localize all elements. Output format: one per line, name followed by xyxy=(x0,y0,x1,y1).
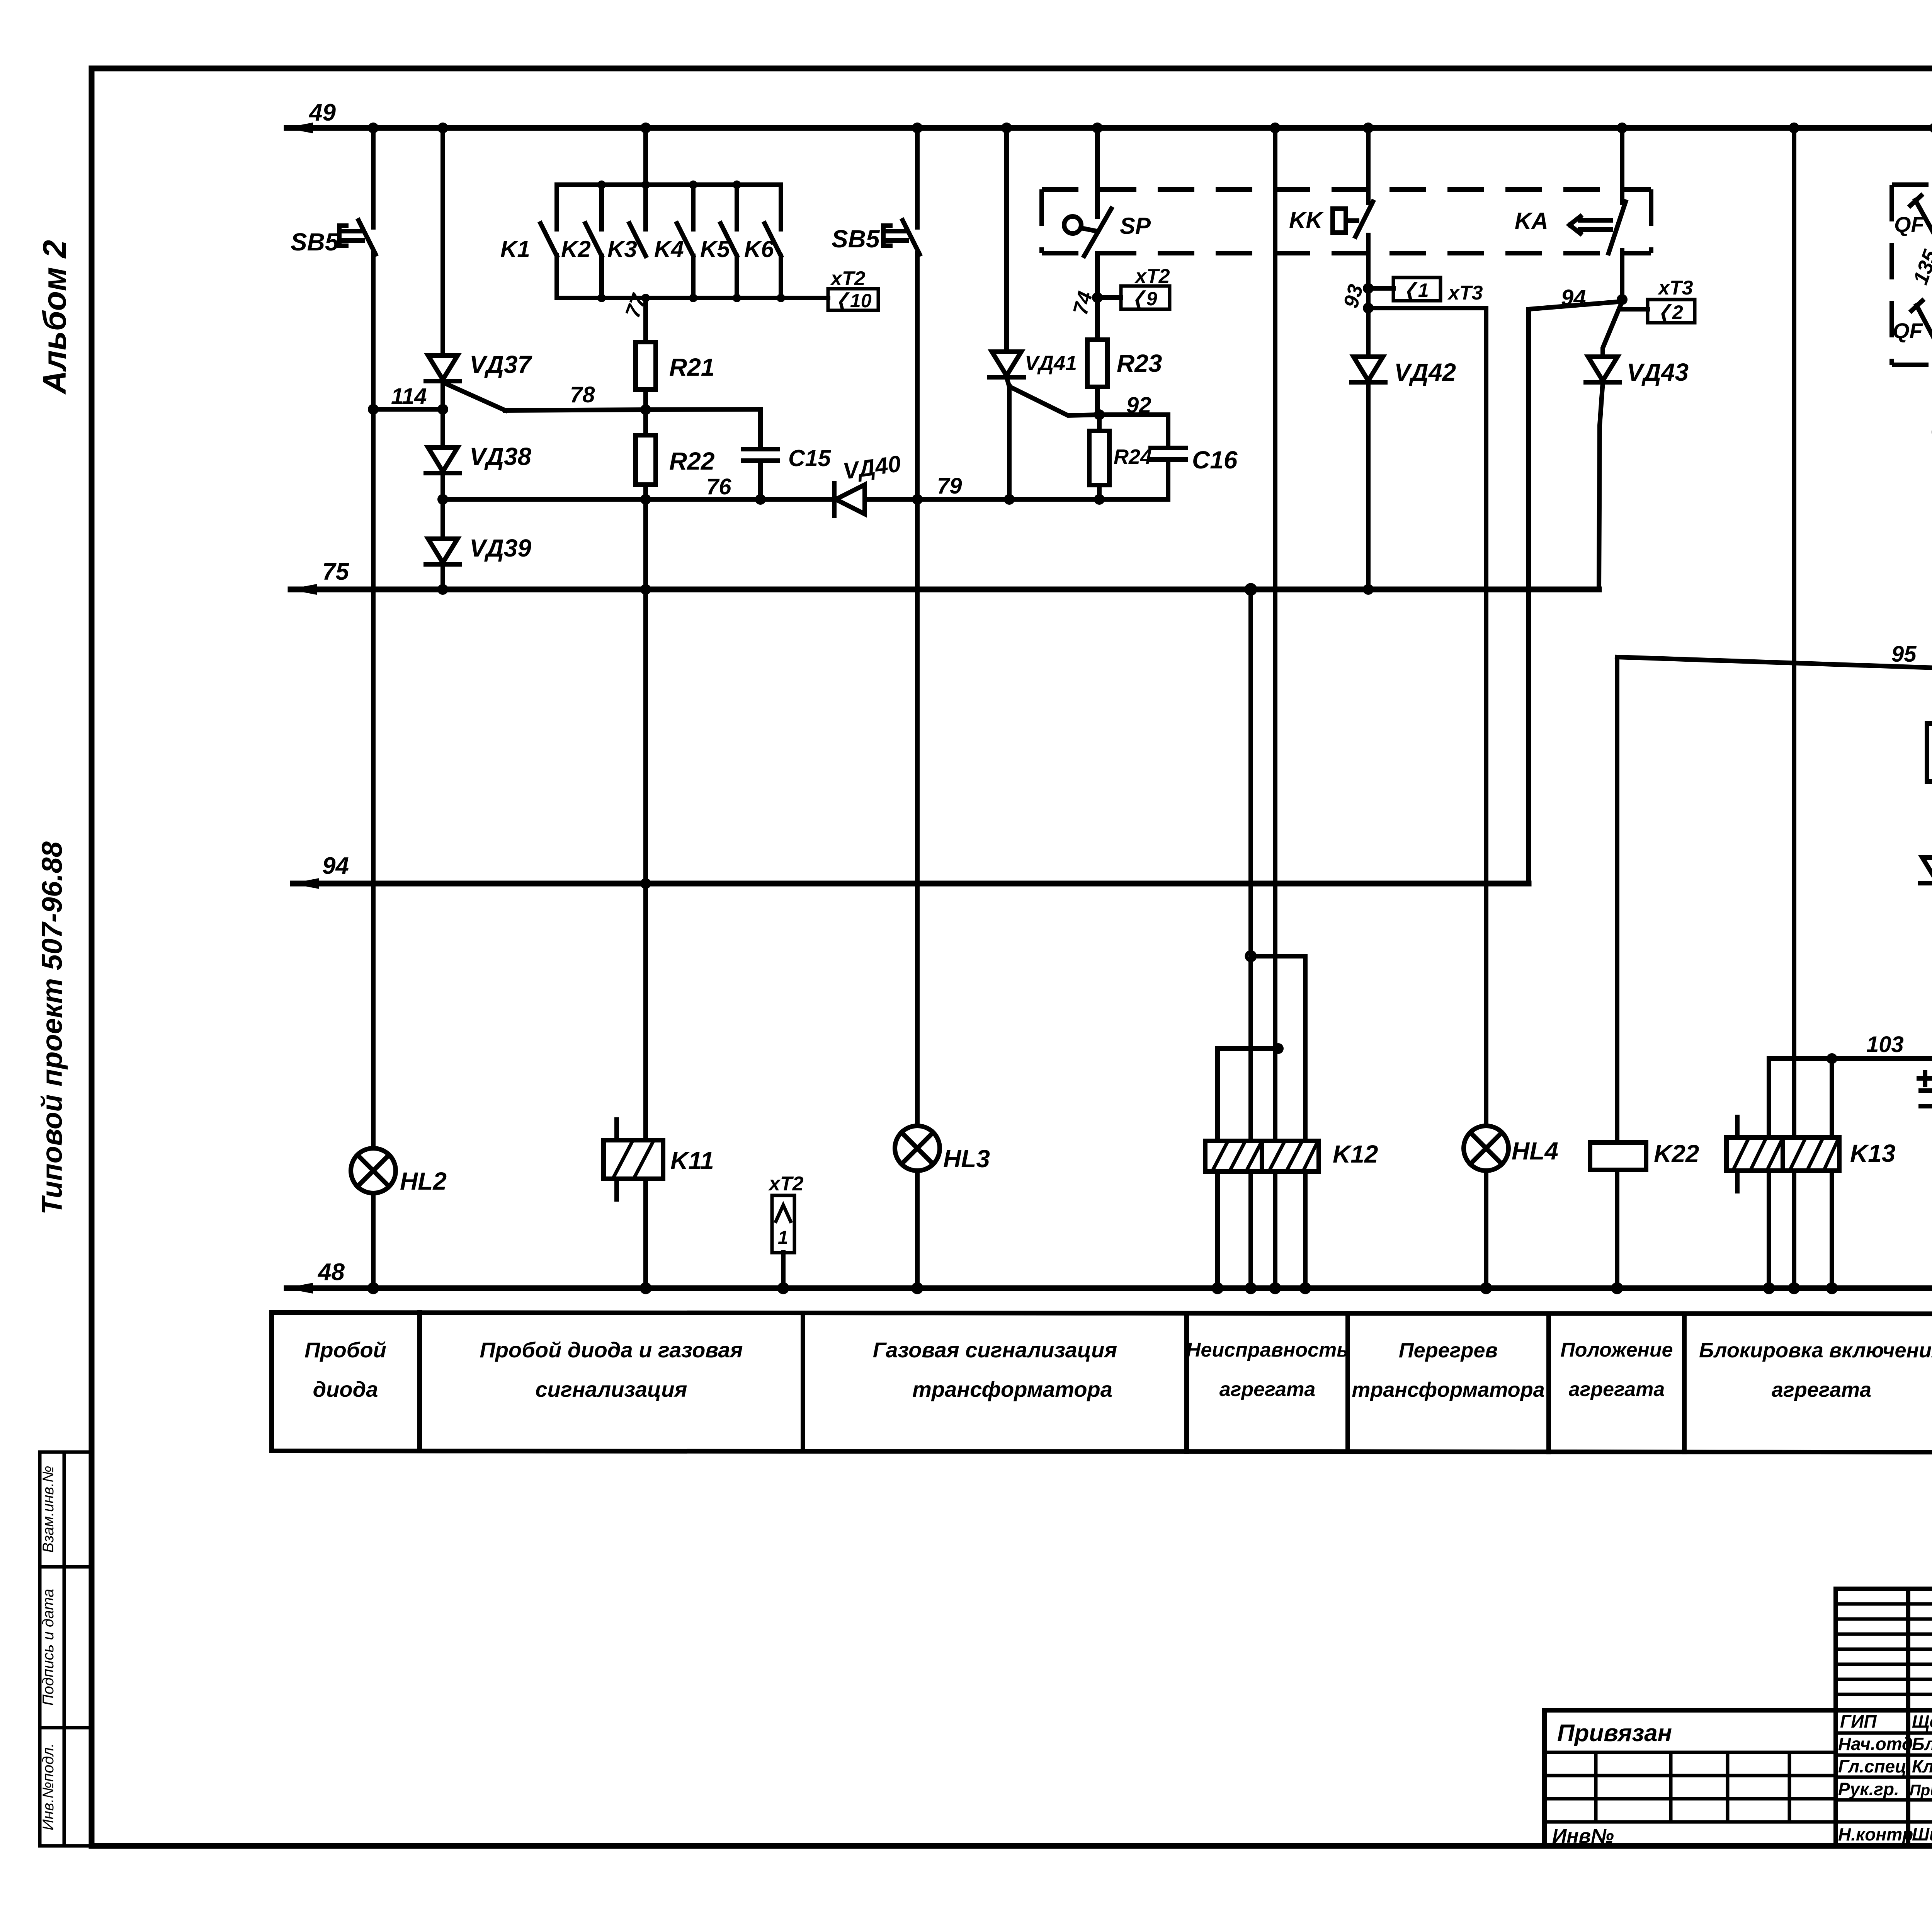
svg-text:❬1: ❬1 xyxy=(1402,279,1429,302)
wire node92 corner to C16 xyxy=(1099,415,1168,448)
wire HL3 to bus48 xyxy=(915,1171,920,1288)
wire R24 top xyxy=(1097,415,1102,431)
junction R24 x line76 xyxy=(1094,494,1105,505)
svg-text:C15: C15 xyxy=(788,445,832,471)
svg-text:48: 48 xyxy=(317,1259,345,1285)
svg-text:R24: R24 xyxy=(1114,445,1152,468)
wire VD41 diagonal to node 92 xyxy=(1007,377,1099,415)
svg-text:Привезенцева: Привезенцева xyxy=(1910,1782,1932,1799)
lamp HL2 xyxy=(351,1148,396,1193)
junction K2 bottom xyxy=(597,294,606,302)
wire 77 K bank to R21 xyxy=(643,298,648,342)
junction VD41 column x line76 xyxy=(1004,494,1015,505)
svg-text:ГИП: ГИП xyxy=(1840,1711,1877,1731)
wire column KK upper xyxy=(1366,128,1371,203)
svg-text:R23: R23 xyxy=(1117,349,1162,377)
junction K4 bottom xyxy=(689,294,697,302)
terminal circle XT2-1 at bus48 xyxy=(779,1284,787,1292)
wire HL2 to bus48 xyxy=(371,1193,376,1288)
resistor R22 xyxy=(636,435,656,485)
svg-text:76: 76 xyxy=(706,474,731,499)
junction bus49 x KK xyxy=(1363,123,1374,133)
wire K22 column xyxy=(1615,657,1619,1142)
table cell Газовая сигнализация трансформатора xyxy=(873,1338,1117,1401)
svg-text:Положение: Положение xyxy=(1560,1339,1673,1361)
wire SB5-2 lower through node79 to HL3 xyxy=(915,253,920,1126)
junction K2 top xyxy=(597,180,606,189)
wire VD43 to bus75 right end xyxy=(1599,382,1603,589)
svg-text:SB5: SB5 xyxy=(832,225,880,253)
junction 78 x R21 column xyxy=(640,404,651,415)
svg-text:Типовой проект 507-96.88: Типовой проект 507-96.88 xyxy=(36,841,68,1215)
resistor R21 xyxy=(636,342,656,390)
wire column SB5-1 lower to HL2 xyxy=(371,253,376,1148)
svg-text:HL3: HL3 xyxy=(943,1145,990,1173)
wire column SP upper xyxy=(1095,128,1100,216)
table cell Положение агрегата xyxy=(1560,1339,1673,1401)
resistor R23 xyxy=(1087,340,1107,387)
svg-text:Клячин: Клячин xyxy=(1912,1756,1932,1776)
relay coil K13 (double) xyxy=(1726,1117,1839,1191)
wire HL4 to bus48 xyxy=(1484,1171,1488,1288)
junction K5 bottom xyxy=(733,294,741,302)
contact K6 xyxy=(765,223,781,298)
wire column from bus75 to K12 (3237) xyxy=(1248,589,1253,1288)
wire node93 to XT3-1 xyxy=(1368,286,1393,291)
svg-text:агрегата: агрегата xyxy=(1772,1378,1871,1401)
wire VD39 to bus 75 xyxy=(440,564,445,589)
junction bus75 x K11 column xyxy=(640,584,651,595)
svg-text:Шишло: Шишло xyxy=(1912,1824,1932,1844)
svg-text:❬2: ❬2 xyxy=(1656,301,1683,324)
junction K3 bottom xyxy=(641,294,650,302)
wire R22 bottom to line76 xyxy=(643,485,648,499)
contact KA blade xyxy=(1609,202,1626,253)
left attach box rows xyxy=(1544,1752,1836,1822)
svg-text:K1: K1 xyxy=(500,236,530,262)
svg-text:Неисправность: Неисправность xyxy=(1186,1339,1349,1361)
wire line 103 xyxy=(1769,1056,1932,1061)
junction bus49 x KA xyxy=(1617,123,1628,133)
wire column VD37 top xyxy=(440,128,445,356)
resistor R24 xyxy=(1089,431,1109,485)
wire column SB5-2 upper xyxy=(915,128,920,227)
contact KK thermal element xyxy=(1333,209,1357,233)
wire column VD41 xyxy=(1004,128,1009,352)
capacitor C15 xyxy=(743,449,778,461)
relay coil K11 xyxy=(604,1120,663,1199)
wire node94 branch to bus94 xyxy=(1529,301,1622,884)
svg-text:K5: K5 xyxy=(700,236,730,262)
svg-text:Рук.гр.: Рук.гр. xyxy=(1838,1779,1899,1799)
svg-text:K12: K12 xyxy=(1333,1140,1378,1168)
connector XT2 pin 9 box xyxy=(1121,286,1170,310)
wire node94 to XT3-2 xyxy=(1622,307,1648,312)
wire XT2-1 to bus48 xyxy=(781,1253,786,1288)
switch SP head circle xyxy=(1064,216,1081,233)
junction bus94 x K11 column xyxy=(640,878,651,889)
svg-text:Пробой: Пробой xyxy=(304,1338,386,1362)
wire corner 78 down to C15 xyxy=(758,409,763,449)
switch SB5 (second) actuator xyxy=(883,226,906,246)
svg-text:75: 75 xyxy=(322,558,349,585)
svg-text:KK: KK xyxy=(1289,207,1324,233)
wire VD42 to bus75 xyxy=(1366,382,1371,589)
wire KK to node 93 xyxy=(1366,235,1371,308)
connector XT3 pin 2 box xyxy=(1648,300,1695,324)
svg-text:R21: R21 xyxy=(669,353,714,381)
wire line 95 xyxy=(1617,657,1932,668)
switch SB5 (second) blade xyxy=(903,220,920,254)
bus 75 wire xyxy=(291,587,1599,592)
wire line 79 to node 92 branch xyxy=(917,497,1009,502)
diode VD44 xyxy=(1920,858,1932,883)
contact K3 blade xyxy=(629,223,646,256)
contact K5 xyxy=(721,185,737,298)
junction node 92 xyxy=(1094,409,1105,420)
table cell Неисправность агрегата xyxy=(1186,1339,1349,1401)
svg-text:1: 1 xyxy=(778,1227,788,1248)
svg-text:Гл.спец: Гл.спец xyxy=(1838,1756,1906,1776)
bus 49 arrow xyxy=(285,123,313,133)
svg-text:49: 49 xyxy=(308,99,336,126)
contact K1 xyxy=(541,223,557,256)
wire R23 to node 92 xyxy=(1095,387,1100,414)
junction node 79 xyxy=(912,494,923,505)
junction C15 x line76 xyxy=(755,494,766,505)
svg-text:Щетинский: Щетинский xyxy=(1912,1711,1932,1731)
junction bus75 x VD42 xyxy=(1363,584,1374,595)
svg-text:Инв№: Инв№ xyxy=(1552,1825,1614,1847)
diode VD37 xyxy=(426,356,460,381)
terminal circle K11 at bus48 xyxy=(641,1284,650,1292)
junction line76 x VD column xyxy=(437,494,448,505)
switch SB5 (left) actuator xyxy=(339,226,362,246)
wire VD37 to node114 junction xyxy=(440,381,445,448)
svg-text:K2: K2 xyxy=(561,236,591,262)
junction at 3308,2713 xyxy=(1273,1043,1284,1054)
junction node 94 (XT3-2) xyxy=(1617,294,1628,305)
capacitor C16 xyxy=(1151,448,1185,460)
junction bus49 x VD column xyxy=(437,123,448,133)
wire K12 right feed xyxy=(1303,956,1308,1288)
svg-text:HL2: HL2 xyxy=(400,1167,447,1195)
svg-text:❬10: ❬10 xyxy=(834,290,872,312)
svg-text:VД42: VД42 xyxy=(1394,358,1456,386)
junction circle bus75 x 3237 xyxy=(1246,585,1255,594)
svg-text:Блокировка включения: Блокировка включения xyxy=(1699,1339,1932,1362)
junction bus49 x K column xyxy=(640,123,651,133)
svg-text:K13: K13 xyxy=(1850,1139,1895,1167)
switch SP link xyxy=(1081,228,1097,231)
junction 114 x VD column xyxy=(437,404,448,415)
wire column from bus49 to K12 (3300) xyxy=(1273,128,1277,1288)
junction bus49 x SB5-1 xyxy=(368,123,379,133)
wire VD38 to line 76 xyxy=(440,473,445,539)
signature table rows xyxy=(1836,1733,1932,1822)
junction node 93 lower branch xyxy=(1363,303,1374,313)
junction circle at 3237,2474 xyxy=(1247,952,1255,960)
svg-text:R22: R22 xyxy=(669,447,714,475)
table cell Перегрев трансформатора xyxy=(1352,1339,1544,1401)
svg-text:QF: QF xyxy=(1893,318,1923,343)
svg-text:Альбом 2: Альбом 2 xyxy=(36,240,73,395)
wire node74 to XT2-9 xyxy=(1097,295,1121,300)
svg-text:K6: K6 xyxy=(744,236,774,262)
connector XT3 pin 1 box xyxy=(1393,278,1440,302)
svg-text:Пробой диода и газовая: Пробой диода и газовая xyxy=(480,1338,743,1362)
svg-text:78: 78 xyxy=(570,382,595,407)
function table grid xyxy=(272,1313,1932,1452)
connector XT2 pin 1 (vertical) xyxy=(772,1195,794,1253)
diode VD38 xyxy=(426,448,460,473)
junction K4 top xyxy=(689,180,697,189)
svg-text:хT2: хT2 xyxy=(830,267,866,290)
svg-text:хT3: хT3 xyxy=(1447,282,1483,304)
svg-text:114: 114 xyxy=(391,384,427,409)
table cell Пробой диода и газовая сигнализация xyxy=(480,1338,743,1401)
junction bus49 x SB5-2 xyxy=(912,123,923,133)
svg-text:VД38: VД38 xyxy=(469,443,532,470)
wire K12 jog lower xyxy=(1218,1046,1278,1051)
svg-text:❬9: ❬9 xyxy=(1130,288,1157,310)
junction K5 top xyxy=(733,180,741,189)
wire main column K3/R21 from bus49 xyxy=(643,128,648,229)
diode VD43 xyxy=(1586,357,1620,382)
table cell Блокировка включения агрегата xyxy=(1699,1339,1932,1401)
junction node 74 xyxy=(1092,292,1103,303)
bus 48 wire xyxy=(287,1285,1932,1291)
svg-text:хT2: хT2 xyxy=(768,1173,804,1195)
wire KK column to VD42 xyxy=(1366,308,1371,357)
junction XT3-3 xyxy=(1932,427,1932,438)
svg-text:Н.контр.: Н.контр. xyxy=(1838,1824,1918,1844)
svg-text:Привязан: Привязан xyxy=(1557,1720,1672,1747)
wire R24 bottom xyxy=(1097,485,1102,499)
lamp HL4 xyxy=(1464,1126,1509,1171)
svg-text:хT3: хT3 xyxy=(1657,277,1693,299)
svg-text:хT2: хT2 xyxy=(1134,265,1170,288)
wire 103 to K13 right xyxy=(1830,1059,1834,1137)
signature rows text xyxy=(1838,1711,1932,1844)
svg-text:трансформатора: трансформатора xyxy=(1352,1378,1544,1401)
svg-text:95: 95 xyxy=(1891,642,1917,667)
wire node93 branch to HL4 column xyxy=(1368,308,1486,1126)
svg-text:агрегата: агрегата xyxy=(1569,1378,1665,1401)
wire line 78 xyxy=(505,409,760,410)
junction bus75 x VD column xyxy=(437,584,448,595)
junction R22 x line76 xyxy=(640,494,651,505)
terminal circle HL2 at bus48 xyxy=(369,1284,378,1292)
breaker QF contact 2 xyxy=(1912,301,1932,348)
svg-text:Перегрев: Перегрев xyxy=(1399,1339,1498,1362)
diode VD39 xyxy=(426,539,460,564)
lamp HL3 xyxy=(895,1126,940,1171)
terminal circles K13 at bus48 xyxy=(1765,1284,1773,1292)
svg-text:Взам.инв.№: Взам.инв.№ xyxy=(40,1466,57,1553)
wire VD40 to node 79 xyxy=(865,497,917,502)
svg-text:VД41: VД41 xyxy=(1025,352,1077,375)
table cell Пробой диода xyxy=(304,1338,386,1401)
terminal circle K22 at bus48 xyxy=(1613,1284,1621,1292)
junction bus49 x 4643 xyxy=(1789,123,1799,133)
svg-text:HL4: HL4 xyxy=(1512,1137,1558,1165)
wire SP to node 74 xyxy=(1095,253,1100,340)
terminal circle HL4 at bus48 xyxy=(1482,1284,1490,1292)
svg-text:79: 79 xyxy=(937,473,962,499)
switch SB5 (left) blade xyxy=(359,220,376,254)
bus 94 wire xyxy=(293,881,1529,887)
junction bus49 x SP column xyxy=(1092,123,1103,133)
dashed box QF xyxy=(1892,185,1932,365)
svg-text:SP: SP xyxy=(1120,213,1151,239)
dashed box SP KK KA xyxy=(1042,189,1651,253)
svg-text:K11: K11 xyxy=(670,1147,714,1175)
revision grid rows xyxy=(1836,1604,1932,1694)
wire K11 to bus48 xyxy=(643,1179,648,1288)
wire column R22/K11 from bus94 xyxy=(643,499,648,1140)
svg-text:QF: QF xyxy=(1894,212,1925,237)
svg-text:Подпись и дата: Подпись и дата xyxy=(40,1589,57,1706)
junction bus49 x QF xyxy=(1929,123,1932,133)
junction bus49 x 3300 xyxy=(1270,123,1281,133)
junction node 93 (XT3-1) xyxy=(1363,283,1374,294)
svg-text:VД37: VД37 xyxy=(469,351,533,378)
diode VD40 (horizontal) xyxy=(834,483,865,516)
wires K13 to bus48 xyxy=(1767,1171,1771,1288)
wire K22 to bus48 xyxy=(1615,1170,1619,1288)
svg-text:KA: KA xyxy=(1515,208,1548,234)
diode VD41 xyxy=(990,352,1024,377)
svg-text:агрегата: агрегата xyxy=(1219,1378,1316,1401)
wire line 76 xyxy=(443,497,834,502)
svg-text:Газовая сигнализация: Газовая сигнализация xyxy=(873,1338,1117,1362)
bus 49 wire xyxy=(287,125,1932,131)
margin stamp boxes xyxy=(40,1452,92,1846)
wire node 114 link xyxy=(373,407,443,412)
contact KK blade xyxy=(1355,202,1373,237)
svg-text:VД39: VД39 xyxy=(469,534,532,562)
relay coil K12 (double) xyxy=(1205,1141,1319,1171)
terminal circle HL3 at bus48 xyxy=(913,1284,922,1292)
wire column SB5-1 upper xyxy=(371,128,376,227)
wire 103 corner down to K13 xyxy=(1767,1059,1771,1137)
junction bus49 x VD41 column xyxy=(1001,123,1012,133)
contact bank top rail xyxy=(557,185,781,229)
junction 103 x 4741 xyxy=(1827,1053,1837,1064)
relay coil K22 xyxy=(1590,1142,1646,1170)
junction K6 bottom xyxy=(777,294,785,302)
svg-text:SB5: SB5 xyxy=(291,228,339,256)
terminal circles K12 at bus48 xyxy=(1213,1284,1222,1292)
junction node 114 on SB5 column xyxy=(368,404,379,415)
wire C16 to line76 end xyxy=(1166,460,1170,499)
wire R22 top xyxy=(643,410,648,435)
connector XT2 pin 10 box xyxy=(828,289,878,312)
wire line 76 right section xyxy=(1009,497,1168,502)
diode VD42 xyxy=(1351,357,1385,382)
svg-text:C16: C16 xyxy=(1192,446,1238,474)
bus 75 arrow xyxy=(289,584,317,595)
svg-text:диода: диода xyxy=(313,1377,378,1401)
wire K12 jog upper xyxy=(1251,954,1305,958)
breaker QF contact 1 xyxy=(1910,196,1932,243)
svg-text:Блохин: Блохин xyxy=(1912,1734,1932,1754)
title block grid xyxy=(1544,1589,1932,1846)
capacitor C17 polarized xyxy=(1919,1072,1932,1106)
junction node 95 xyxy=(1932,662,1932,673)
contact KA actuator arrow xyxy=(1570,216,1611,233)
switch SP blade xyxy=(1084,209,1111,256)
wire column KA upper xyxy=(1620,128,1624,203)
contact K2 xyxy=(585,185,602,298)
svg-text:трансформатора: трансформатора xyxy=(912,1377,1112,1401)
wire column bus49 to K13 (4643) xyxy=(1792,128,1796,1137)
junction K3 top xyxy=(641,180,650,189)
wire diagonal VD column to line 78 xyxy=(445,383,505,410)
wire VD41 column to line76 xyxy=(1007,386,1012,499)
svg-text:94: 94 xyxy=(322,853,349,879)
svg-text:VД43: VД43 xyxy=(1627,358,1689,386)
bus 94 arrow xyxy=(291,878,319,889)
wire KA to node 94 junction xyxy=(1620,250,1624,300)
wire R21 to line 78 xyxy=(643,390,648,409)
contact K4 xyxy=(677,185,693,298)
wire KA column to VD43 xyxy=(1603,301,1622,357)
svg-text:K4: K4 xyxy=(654,236,684,262)
svg-text:Инв.№подл.: Инв.№подл. xyxy=(40,1743,57,1830)
contact bank bottom rail xyxy=(557,255,828,298)
resistor R25 xyxy=(1927,724,1932,781)
svg-text:K22: K22 xyxy=(1654,1140,1699,1168)
svg-text:сигнализация: сигнализация xyxy=(535,1377,687,1401)
bus 48 arrow xyxy=(285,1283,313,1294)
wire K12 left feed xyxy=(1215,1049,1220,1288)
svg-text:K3: K3 xyxy=(607,236,637,262)
svg-text:103: 103 xyxy=(1866,1032,1904,1057)
wire C15 to line 76 xyxy=(758,461,763,499)
svg-text:Нач.отд: Нач.отд xyxy=(1838,1734,1913,1754)
